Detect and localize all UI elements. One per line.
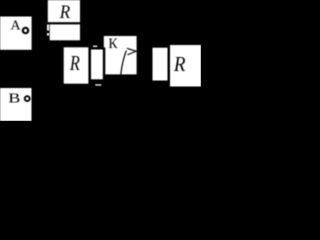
node A terminal patch xyxy=(0,17,32,50)
resistor R2 body right border bar xyxy=(103,47,105,80)
resistor R2 value label patch xyxy=(64,47,89,83)
node B label xyxy=(8,91,20,107)
resistor R1 body xyxy=(50,24,80,40)
wire stub left of R1 xyxy=(47,25,49,31)
wire stub left of R1 lower xyxy=(47,33,49,36)
node B terminal patch xyxy=(0,88,32,121)
svg-text:R: R xyxy=(59,1,70,22)
svg-text:R: R xyxy=(173,53,186,76)
resistor R3 label R xyxy=(173,53,186,76)
wire below R2 xyxy=(95,84,101,85)
resistor R3 body xyxy=(153,48,168,81)
svg-text:A: A xyxy=(11,19,22,34)
resistor R2 label R xyxy=(69,52,80,76)
switch K arrow xyxy=(127,48,136,54)
svg-text:B: B xyxy=(8,91,20,107)
switch K lever xyxy=(121,51,127,75)
svg-text:К: К xyxy=(108,36,118,52)
wire above R2 xyxy=(93,46,97,47)
terminal B circle xyxy=(25,96,30,101)
switch K label xyxy=(108,36,118,52)
terminal A circle xyxy=(23,28,28,33)
resistor R1 value label patch xyxy=(48,0,80,22)
resistor R2 body interior xyxy=(91,50,103,80)
resistor R3 value label patch xyxy=(170,45,201,87)
resistor R1 label R xyxy=(59,1,70,22)
svg-text:R: R xyxy=(69,52,80,76)
switch K patch xyxy=(104,36,137,74)
